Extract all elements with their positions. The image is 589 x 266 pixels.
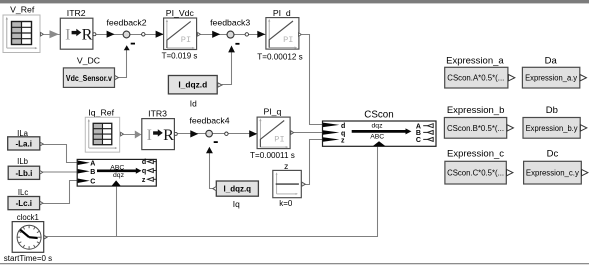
clock face [17, 225, 41, 249]
block I_dqz.d expression [168, 76, 217, 94]
svg-text:Da: Da [545, 56, 558, 67]
svg-text:B: B [416, 130, 421, 137]
output connector I_dqz.q (points left) [213, 186, 217, 190]
wire Iq_Ref to ITR3 [123, 134, 141, 136]
up arrowhead into feedback2 from Vdc sensor [124, 45, 130, 50]
wire Vdc_Sensor.v to feedback2 [118, 50, 126, 78]
wire -Lc.i to dqz C input [43, 181, 77, 204]
svg-text:ABC: ABC [370, 133, 384, 140]
summation circle feedback2 [123, 31, 130, 38]
svg-text:z: z [142, 177, 146, 184]
svg-text:T=0.019 s: T=0.019 s [162, 51, 198, 60]
block clock1 [12, 222, 44, 253]
wire clock1 to dqz and CScon angle inputs [47, 146, 378, 236]
wire PI_d to CScon d input [302, 35, 323, 125]
svg-text:B: B [90, 169, 95, 176]
output connector Db [580, 125, 586, 131]
svg-text:-Lc.i: -Lc.i [16, 199, 32, 208]
svg-text:Db: Db [546, 105, 558, 116]
block ITR2 (I to R converter) [60, 18, 93, 49]
svg-text:Expression_b: Expression_b [447, 105, 505, 116]
clock ticks [18, 226, 41, 249]
svg-text:CScon: CScon [364, 109, 393, 120]
output connector -Lc.i [40, 201, 43, 205]
input port arrow B [78, 169, 90, 174]
svg-text:z: z [341, 137, 345, 144]
svg-text:k=0: k=0 [279, 199, 293, 208]
wire branch to dqz angle input [116, 186, 118, 236]
minus sign feedback2 [131, 43, 135, 45]
wire PI_q to CScon q input [293, 132, 322, 134]
input arrowhead into PI_q [249, 130, 257, 137]
input port arrow d [323, 123, 339, 128]
output connector -La.i [40, 142, 43, 146]
svg-text:CScon.C*0.5*(...: CScon.C*0.5*(... [447, 169, 504, 178]
svg-text:z: z [284, 161, 288, 171]
svg-text:feedback4: feedback4 [189, 116, 229, 126]
svg-text:feedback2: feedback2 [106, 17, 146, 27]
input arrowhead into PI_d [257, 31, 265, 38]
block -La.i expression [8, 137, 40, 150]
svg-text:Id: Id [190, 98, 197, 108]
svg-text:T=0.00011 s: T=0.00011 s [250, 151, 295, 160]
input port arrow z [323, 137, 339, 142]
block -Lc.i expression [8, 197, 40, 210]
svg-text:Expression_c: Expression_c [447, 149, 504, 160]
gray signal arrowhead to ITR2 [50, 30, 59, 38]
svg-text:T=0.00012 s: T=0.00012 s [257, 53, 302, 62]
output connector I_dqz.d [218, 83, 222, 87]
output connector Expression_a [508, 75, 514, 81]
output connector Expression_c [507, 169, 513, 175]
svg-text:d: d [142, 159, 146, 166]
summation circle feedback3 [227, 31, 234, 38]
thick transform arrow [97, 169, 136, 172]
wire feedback4 to PI_q [212, 133, 256, 135]
wire feedback2 to PI_Vdc [130, 34, 163, 36]
bottom angle input arrowhead [373, 141, 386, 146]
svg-text:PI_Vdc: PI_Vdc [166, 8, 195, 18]
wire I_dqz.q to feedback4 [210, 153, 213, 189]
output connector V_Ref [41, 32, 44, 36]
block PI_Vdc [164, 18, 197, 50]
block z (constant k=0) [273, 170, 302, 197]
minus sign feedback3 [235, 43, 239, 45]
input arrowhead feedback2 [107, 31, 115, 38]
wire -La.i to dqz A input [43, 145, 77, 163]
summation circle feedback4 [206, 130, 213, 137]
block Vdc_Sensor.v expression [63, 68, 114, 88]
block I_dqz.q expression [216, 181, 258, 196]
input port arrow q [323, 130, 339, 135]
svg-text:-La.i: -La.i [15, 140, 31, 149]
block PI_q [257, 117, 290, 149]
block V_Ref (CombiTable) [3, 15, 40, 53]
svg-text:feedback3: feedback3 [210, 17, 250, 27]
svg-text:PI_q: PI_q [263, 107, 281, 117]
output connector feedback3 [245, 33, 248, 36]
output connector PI_Vdc [198, 33, 201, 37]
svg-text:Expression_c.y: Expression_c.y [526, 169, 579, 178]
input arrowhead into PI_Vdc [156, 31, 164, 38]
svg-text:ITR3: ITR3 [148, 108, 167, 118]
svg-text:d: d [341, 123, 345, 130]
svg-text:I_dqz.d: I_dqz.d [178, 80, 207, 90]
svg-text:PI_d: PI_d [273, 8, 291, 18]
wire ITR3 to feedback4 [177, 133, 206, 135]
wire z constant to CScon z input [305, 140, 322, 185]
output connector -Lb.i [40, 171, 43, 175]
svg-text:V_DC: V_DC [77, 56, 100, 66]
svg-text:ILb: ILb [17, 157, 29, 166]
svg-text:C: C [416, 137, 421, 144]
output connector Expression_b [507, 125, 513, 131]
block Db expression [523, 118, 580, 139]
svg-text:Expression_b.y: Expression_b.y [526, 124, 578, 133]
block dqz transform [77, 159, 156, 186]
up arrowhead into feedback3 from I_dqz.d [228, 46, 235, 53]
svg-text:CScon.B*0.5*(...: CScon.B*0.5*(... [447, 124, 504, 133]
svg-text:CScon.A*0.5*(...: CScon.A*0.5*(... [447, 74, 504, 83]
svg-text:C: C [90, 179, 95, 186]
bottom angle input arrowhead [112, 180, 121, 186]
block Iq_Ref (CombiTable) [85, 117, 119, 152]
constant value line [276, 183, 299, 185]
block CScon.A expression [445, 67, 508, 88]
svg-text:V_Ref: V_Ref [10, 5, 35, 15]
wire ITR2 to feedback2 [96, 34, 123, 36]
svg-text:A: A [90, 161, 95, 168]
output connector Iq_Ref [121, 132, 124, 136]
input port arrow A [78, 161, 90, 166]
block Da expression [522, 67, 579, 88]
output connector clock1 [44, 235, 47, 239]
top toolbar bar [0, 0, 589, 3]
svg-text:clock1: clock1 [17, 213, 39, 222]
svg-text:Vdc_Sensor.v: Vdc_Sensor.v [66, 74, 112, 83]
output connector z [302, 182, 306, 186]
output connector PI_d [299, 33, 302, 37]
svg-text:Iq_Ref: Iq_Ref [88, 108, 114, 118]
block CScon.B expression [444, 118, 506, 139]
svg-text:q: q [142, 168, 146, 175]
svg-text:Dc: Dc [547, 149, 559, 160]
svg-text:Iq: Iq [233, 199, 240, 209]
wire PI_Vdc to feedback3 [200, 34, 227, 36]
svg-text:-Lb.i: -Lb.i [15, 169, 32, 178]
gray signal arrowhead to ITR3 [135, 131, 142, 139]
svg-text:Expression_a.y: Expression_a.y [525, 74, 577, 83]
output connector Dc [582, 169, 588, 175]
output connector ITR2 [93, 33, 96, 36]
block ITR3 (I to R converter) [142, 119, 175, 150]
input arrowhead feedback4 [190, 130, 198, 137]
minus sign feedback4 [214, 141, 218, 143]
svg-text:dqz: dqz [113, 172, 125, 179]
svg-text:ILc: ILc [18, 188, 29, 197]
svg-text:dqz: dqz [372, 123, 384, 130]
block PI_d [266, 18, 299, 49]
output connector feedback4 [225, 132, 228, 135]
input port arrow C [78, 179, 90, 184]
thick transform arrow [352, 130, 406, 133]
wire -Lb.i to dqz B input [43, 171, 77, 173]
svg-text:I_dqz.q: I_dqz.q [224, 185, 252, 194]
clock hands [20, 230, 29, 238]
svg-text:ITR2: ITR2 [67, 8, 86, 18]
output connector feedback2 [142, 33, 145, 36]
wire V_Ref to ITR2 [44, 34, 60, 36]
block CScon [323, 121, 437, 146]
up arrowhead into feedback4 from I_dqz.q [206, 147, 213, 154]
wire I_dqz.d to feedback3 [222, 52, 232, 84]
block Dc expression [524, 161, 582, 184]
output connector Vdc_Sensor [115, 75, 119, 79]
block CScon.C expression [445, 161, 506, 184]
output connector PI_q [291, 131, 294, 135]
bottom separator line [0, 263, 589, 264]
block -Lb.i expression [8, 166, 39, 179]
output connector ITR3 [174, 132, 177, 135]
output connector Da [580, 75, 586, 81]
svg-text:Expression_a: Expression_a [446, 56, 504, 67]
input arrowhead feedback3 [212, 31, 220, 38]
svg-text:startTime=0 s: startTime=0 s [4, 254, 52, 263]
wire feedback3 to PI_d [234, 34, 266, 36]
